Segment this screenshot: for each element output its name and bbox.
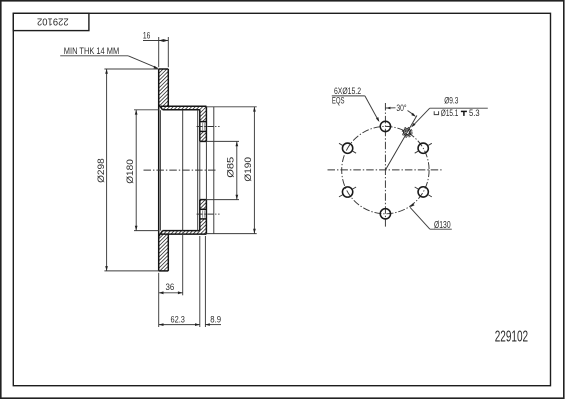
bottom bolt hole axis [197,213,220,215]
bolt hole 6 (300 deg) [342,143,352,153]
dim D190 arrows [253,107,256,112]
hat wall top outer edge [161,105,206,107]
svg-text:Ø130: Ø130 [434,220,451,231]
bolt hole 5 (240 deg) [342,187,352,197]
svg-text:Ø15.1: Ø15.1 [441,108,459,118]
flange section hatch bottom upper [200,200,207,210]
bolt hole top back edges [201,123,203,130]
hat wall bottom inner edge [163,230,200,232]
svg-text:Ø180: Ø180 [124,159,135,184]
disc axis centerline [144,169,217,171]
svg-text:Ø9.3: Ø9.3 [444,96,458,106]
flange left face outline [199,110,201,142]
hat wall bottom outer edge [161,233,206,235]
flange right face outline [205,106,207,141]
hat inner recess line [197,110,199,231]
rotor-to-hat fillet top [159,105,163,110]
bolt hole 1 (0 deg) [380,121,390,131]
rotor right face outline top [167,69,169,106]
dim D190 extension lines [206,106,256,108]
rotor left face outline [158,69,160,271]
bore lower edge [200,199,207,201]
dim 30deg line left [386,107,396,109]
rotor top edge [159,68,169,70]
bore upper edge [200,140,207,142]
svg-text:30°: 30° [396,103,406,113]
dim D298 arrows [105,69,108,74]
hat wall top inner edge [163,109,200,111]
depth symbol [461,110,467,112]
note underline and leader [60,55,128,57]
rotor section hatch bottom [159,234,169,271]
svg-text:EQS: EQS [332,96,345,106]
dim D85 arrows [236,141,239,146]
dim 36 arrows [159,291,164,294]
bolt hole top gap edges [200,121,207,123]
bolt hole bottom back edges [201,211,203,218]
wheel mounting face line [213,107,215,234]
svg-text:5.3: 5.3 [469,108,480,118]
dim 16 line [143,40,168,42]
dim 30deg arrow at centerline [386,107,391,110]
bolt hole bottom gap edges [200,208,207,210]
dim 62.3 line [159,324,200,326]
bolt hole 3 (120 deg) [418,187,428,197]
svg-text:6XØ15.2: 6XØ15.2 [334,86,361,96]
note leader arrow [154,66,159,69]
hat wall section hatch top [159,106,207,110]
note D130 leader arrow [410,203,415,207]
dim D180 line [135,110,137,231]
rotor right face outline bottom [167,234,169,271]
note D130 leader [410,207,430,229]
dim 16 arrows [159,39,164,42]
svg-text:36: 36 [166,281,175,292]
dim D180 arrows [135,110,138,115]
top bolt hole axis [197,126,220,128]
note D9.3 leader line [430,107,488,109]
svg-text:62.3: 62.3 [171,313,185,324]
dim D190 line [253,107,255,234]
dim 36 extension lines [158,273,160,327]
rotor inner chamfer line [159,110,161,230]
dim D180 extension lines [134,109,159,111]
dim 36 line [159,292,183,294]
svg-text:Ø298: Ø298 [95,158,106,183]
flange right face through bore [205,141,207,199]
dim 62.3 arrows [159,323,164,326]
note 6X leader arrow [376,117,380,122]
svg-text:229102: 229102 [495,328,528,345]
hat interior floor line [182,110,184,231]
flange section hatch bottom lower [200,219,207,231]
svg-text:MIN THK 14 MM: MIN THK 14 MM [64,46,119,56]
pilot hole D9.3 with counterbore D15.1 [405,130,410,135]
flange left face through bore [199,141,201,199]
front view horizontal centerline [328,169,443,171]
dim 30deg line right [408,111,415,116]
dim D298 line [106,69,108,271]
dim 30deg arrow at radial [411,113,416,117]
bolt hole 4 (180 deg) [380,209,390,219]
dim D85 line [236,141,238,199]
dim 8.9 line [205,324,221,326]
bolt circle D130 [342,126,429,213]
svg-text:229102: 229102 [37,16,69,27]
note D9.3 leader arrow [411,123,415,127]
counterbore symbol [434,111,438,114]
dim D85 extension lines [206,140,239,142]
hat wall section hatch bottom [159,231,207,235]
svg-text:Ø85: Ø85 [224,157,235,178]
svg-text:Ø190: Ø190 [242,157,253,182]
rotor section hatch top [159,69,169,106]
title box top-left [13,13,89,30]
rotor bottom edge [159,270,169,272]
dim 8.9 arrow [205,323,209,326]
bolt hole 2 (60 deg) [418,143,428,153]
dim 62.3/8.9 extension lines [199,236,201,327]
front view vertical centerline [384,103,386,228]
radial line at 30 deg [386,116,417,170]
svg-text:16: 16 [143,30,150,40]
note 6X underline and leader [332,95,365,97]
flange section hatch top lower [200,131,207,141]
flange section hatch top upper [200,110,207,122]
rotor-to-hat fillet bottom [159,231,163,237]
dim 16 extension lines [158,37,160,67]
svg-text:8.9: 8.9 [210,313,221,324]
dim D298 extension lines [104,68,158,70]
